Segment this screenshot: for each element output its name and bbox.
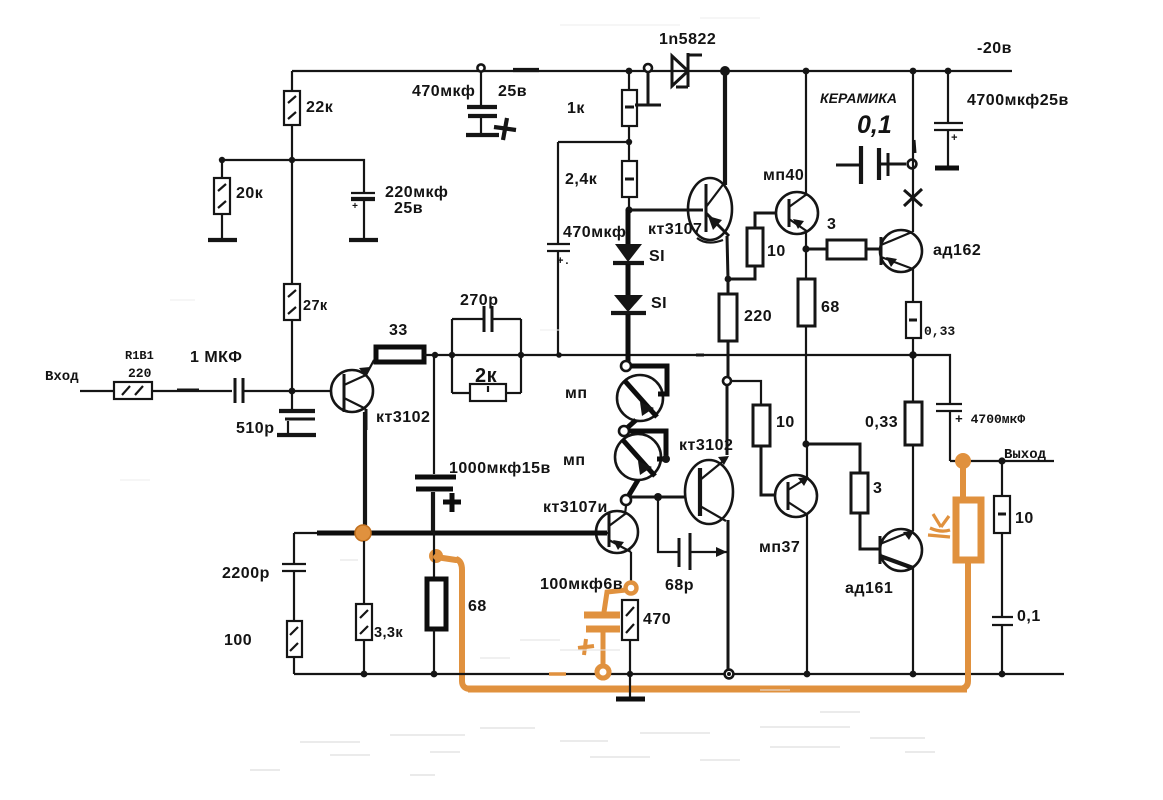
node 1к top xyxy=(626,68,633,75)
diode chain SI x2 xyxy=(611,210,667,368)
resistor R 22к xyxy=(284,91,334,125)
capacitor 68р xyxy=(658,497,727,594)
svg-text:1к: 1к xyxy=(567,100,585,117)
svg-text:10: 10 xyxy=(776,414,795,431)
wire divider horizontal xyxy=(222,160,364,193)
resistor 68 thick xyxy=(427,579,487,674)
svg-text:3,3к: 3,3к xyxy=(374,625,403,641)
resistor R 20к xyxy=(214,160,264,238)
wire ад162 collector column xyxy=(912,71,914,232)
wire input xyxy=(80,390,114,392)
svg-text:4700мкф25в: 4700мкф25в xyxy=(967,92,1069,109)
wire кт3102 mid emitter down xyxy=(727,520,730,671)
capacitor 510p xyxy=(236,391,316,437)
svg-text:кт3107и: кт3107и xyxy=(543,499,608,516)
node below мп pair xyxy=(621,480,700,505)
capacitor 1000мкф15в xyxy=(415,355,551,533)
svg-text:1 МКФ: 1 МКФ xyxy=(190,349,242,366)
transistor мп37 xyxy=(759,444,817,556)
wire to resistor 10 lower xyxy=(731,381,761,405)
RC 270р / 2к loop xyxy=(452,292,521,401)
svg-text:+: + xyxy=(951,133,958,145)
svg-text:кт3102: кт3102 xyxy=(679,437,733,454)
orange stub and down wire xyxy=(436,557,471,689)
resistor 0,33 small xyxy=(906,269,955,355)
svg-text:-20в: -20в xyxy=(977,40,1012,57)
capacitor 470мкф mid xyxy=(547,142,626,355)
svg-text:25в: 25в xyxy=(498,83,527,100)
svg-text:68: 68 xyxy=(468,598,487,615)
svg-text:мп40: мп40 xyxy=(763,167,804,184)
capacitor 470мкф 25в top xyxy=(412,64,527,140)
svg-text:Вход: Вход xyxy=(45,369,79,385)
transistor кт3102 mid xyxy=(679,385,733,524)
transistor мп bottom diode-connected xyxy=(563,420,670,480)
svg-text:ад161: ад161 xyxy=(845,580,893,597)
transistor Q1 кт3102 input xyxy=(331,360,430,430)
wire left column vertical xyxy=(291,71,293,391)
svg-text:ад162: ад162 xyxy=(933,242,981,259)
bottom rail xyxy=(294,673,1064,675)
resistor 10 upper xyxy=(725,213,789,282)
node input base xyxy=(289,388,296,395)
capacitor 4700мкФ output xyxy=(913,355,1054,461)
resistor 3 top xyxy=(806,216,881,259)
scan noise faint xyxy=(120,18,935,775)
tap open circle and bar xyxy=(635,64,661,105)
resistor 1к xyxy=(567,71,637,126)
resistor 10 lower xyxy=(753,405,795,495)
resistor R1B1 220 xyxy=(114,349,154,399)
ground 220мкф xyxy=(349,238,378,242)
svg-text:470мкф: 470мкф xyxy=(412,83,475,100)
capacitor 100мкф6в orange xyxy=(540,576,626,678)
resistor 3 right xyxy=(806,444,882,549)
svg-text:мп37: мп37 xyxy=(759,539,800,556)
wire мп37 emitter xyxy=(806,515,808,674)
transistor мп top diode-connected xyxy=(565,361,667,421)
svg-text:2к: 2к xyxy=(475,365,498,387)
ground main xyxy=(616,674,645,699)
svg-text:кт3107: кт3107 xyxy=(648,221,702,238)
wire after R1B1 xyxy=(152,390,232,392)
svg-text:2200p: 2200p xyxy=(222,565,270,582)
svg-text:220: 220 xyxy=(744,308,772,325)
node A bias divider xyxy=(289,157,295,163)
resistor 3,3к xyxy=(356,541,403,674)
svg-text:мп: мп xyxy=(565,385,588,402)
svg-text:SI: SI xyxy=(649,248,665,265)
resistor 470 xyxy=(622,600,671,674)
orange node at output xyxy=(955,453,971,469)
node 470 bottom xyxy=(627,671,633,677)
node выход xyxy=(998,457,1005,464)
resistor 0,33 big xyxy=(865,355,922,531)
resistor R 27к xyxy=(284,284,328,320)
svg-text:0,33: 0,33 xyxy=(924,324,955,339)
svg-text:470мкф: 470мкф xyxy=(563,224,626,241)
svg-text:кт3102: кт3102 xyxy=(376,409,430,426)
node output mid xyxy=(909,351,917,359)
capacitor 4700мкф25в xyxy=(934,68,1069,168)
orange donut on rail xyxy=(597,666,609,678)
wire кт3107 collector xyxy=(723,71,727,185)
svg-text:220мкф: 220мкф xyxy=(385,184,448,201)
orange resistor 1К xyxy=(928,466,981,689)
svg-text:мп: мп xyxy=(563,452,586,469)
node mid rail after 33 xyxy=(432,352,438,358)
svg-text:2,4к: 2,4к xyxy=(565,171,598,188)
svg-text:270р: 270р xyxy=(460,292,498,309)
svg-text:220: 220 xyxy=(128,366,152,381)
orange dash on rail xyxy=(549,672,566,675)
svg-text:510p: 510p xyxy=(236,420,274,437)
svg-text:R1B1: R1B1 xyxy=(125,349,154,363)
diode 1n5822 xyxy=(659,31,716,87)
svg-text:1n5822: 1n5822 xyxy=(659,31,716,48)
wire 68 branch xyxy=(433,533,435,579)
svg-text:68: 68 xyxy=(821,299,840,316)
transistor ад161 xyxy=(845,529,922,597)
svg-text:0,1: 0,1 xyxy=(1017,608,1041,625)
wire 2200p branch xyxy=(293,533,295,563)
orange bottom run xyxy=(468,686,967,693)
transistor кт3107и xyxy=(543,499,638,553)
svg-text:10: 10 xyxy=(1015,510,1034,527)
wire mid rail xyxy=(452,354,913,356)
ground 20к xyxy=(208,238,237,242)
output RC: resistor 10 xyxy=(994,461,1034,616)
svg-text:33: 33 xyxy=(389,322,408,339)
node big collector top xyxy=(720,66,730,76)
svg-text:1000мкф15в: 1000мкф15в xyxy=(449,460,551,477)
node B xyxy=(219,157,225,163)
node VAS base xyxy=(625,206,632,213)
svg-text:68р: 68р xyxy=(665,577,694,594)
svg-text:SI: SI xyxy=(651,295,667,312)
resistor 2,4к xyxy=(565,126,637,210)
svg-text:+ 4700мкФ: + 4700мкФ xyxy=(955,412,1025,427)
node orange main xyxy=(355,525,371,541)
svg-text:20к: 20к xyxy=(236,185,264,202)
wire top -20V rail xyxy=(292,70,1012,72)
node between 1к 2.4к xyxy=(626,139,632,145)
svg-text:+: + xyxy=(352,202,358,213)
resistor 68 mid xyxy=(798,249,840,444)
svg-text:КЕРАМИКА: КЕРАМИКА xyxy=(820,90,897,106)
svg-text:3: 3 xyxy=(827,216,836,233)
node dots bottom rail xyxy=(361,671,368,678)
svg-text:27к: 27к xyxy=(303,298,328,314)
wire ад161 emitter xyxy=(912,568,914,674)
resistor 33 xyxy=(376,322,424,362)
node ring 220 bottom xyxy=(723,377,731,385)
svg-text:0,1: 0,1 xyxy=(857,111,892,139)
svg-text:Выход: Выход xyxy=(1004,447,1047,463)
svg-text:3: 3 xyxy=(873,480,882,497)
node 470мкф mid xyxy=(556,352,562,358)
node мп40 emitter xyxy=(805,232,807,249)
svg-text:10: 10 xyxy=(767,243,786,260)
wire base VAS xyxy=(629,209,703,212)
svg-text:470: 470 xyxy=(643,611,671,628)
wire mid-low rail xyxy=(294,532,609,534)
ceramic cap crossed xyxy=(820,90,922,206)
orange ring at кт3107и emitter xyxy=(626,552,637,594)
resistor 100 xyxy=(224,621,302,674)
wire emitter thick down xyxy=(363,412,367,533)
svg-text:100: 100 xyxy=(224,632,252,649)
transistor мп40 xyxy=(763,167,818,234)
svg-text:22к: 22к xyxy=(306,99,334,116)
transistor ад162 xyxy=(880,230,981,272)
svg-text:100мкф6в: 100мкф6в xyxy=(540,576,623,593)
node 68 bottom xyxy=(802,440,809,447)
transistor кт3107 xyxy=(648,178,732,243)
output capacitor 0,1 xyxy=(992,608,1041,674)
wire кт3107 emitter to node xyxy=(727,236,728,279)
svg-text:0,33: 0,33 xyxy=(865,414,898,431)
capacitor 2200p xyxy=(222,564,306,621)
capacitor 1 МКФ xyxy=(190,349,243,403)
resistor 220 xyxy=(719,279,772,377)
wire cap to node xyxy=(243,390,344,392)
svg-text:25в: 25в xyxy=(394,200,423,217)
wire мп40 collector to rail xyxy=(805,71,807,195)
node orange 68 top xyxy=(429,549,443,563)
junction tick mid rail xyxy=(696,354,704,357)
capacitor 220мкф 25в xyxy=(351,184,448,238)
